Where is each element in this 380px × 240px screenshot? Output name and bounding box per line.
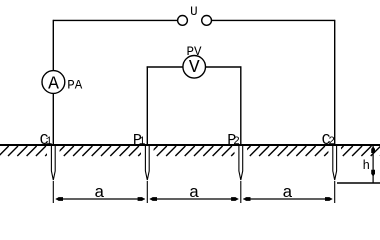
electrode P1 — [145, 146, 149, 180]
label a (span 2) — [189, 184, 199, 203]
label P2 — [227, 132, 240, 149]
svg-text:U: U — [190, 5, 198, 19]
label C2 — [322, 132, 335, 149]
wire top-right segment from source U to C2 — [212, 19, 335, 21]
wire left vertical upper (top wire to ammeter) — [52, 20, 54, 71]
svg-text:a: a — [189, 184, 199, 203]
wire left vertical lower (ammeter to electrode C1) — [52, 93, 54, 145]
label C1 — [40, 132, 53, 149]
electrode C1 — [51, 146, 55, 180]
wire voltmeter horizontal left — [147, 66, 183, 68]
svg-text:a: a — [94, 184, 104, 203]
label h — [363, 159, 371, 173]
svg-text:1: 1 — [46, 136, 53, 148]
wire P2 vertical (voltmeter line to electrode P2) — [240, 66, 242, 145]
ammeter U2 circle — [42, 71, 65, 95]
svg-text:h: h — [363, 159, 371, 173]
dimension h arrow — [371, 146, 375, 183]
electrode C2 — [333, 146, 337, 180]
svg-text:A: A — [48, 74, 59, 94]
dimension line a (P2-C2) — [243, 197, 332, 201]
svg-text:V: V — [189, 58, 200, 78]
source U terminal left — [178, 16, 188, 26]
svg-text:a: a — [282, 184, 292, 203]
extension line below P2 — [240, 181, 242, 203]
label PV — [186, 45, 202, 59]
earth hatching — [0, 145, 380, 157]
electrode P2 — [239, 146, 243, 180]
extension line below P1 — [146, 181, 148, 203]
svg-text:PA: PA — [67, 78, 83, 92]
extension line below C2 — [334, 181, 336, 203]
svg-text:2: 2 — [328, 136, 335, 148]
label PA — [67, 78, 83, 92]
extension line below C1 — [52, 181, 54, 203]
svg-text:2: 2 — [233, 136, 240, 148]
dimension line a (P1-P2) — [150, 197, 239, 201]
svg-text:PV: PV — [186, 45, 202, 59]
svg-text:1: 1 — [139, 136, 146, 148]
depth reference line — [337, 182, 380, 184]
label a (span 3) — [282, 184, 292, 203]
ground surface line — [0, 144, 380, 146]
wire top-left segment from C1 to source U — [53, 19, 178, 21]
wire P1 vertical (electrode P1 to voltmeter line) — [146, 66, 148, 145]
source U terminal right — [202, 16, 212, 26]
label P1 — [133, 132, 146, 149]
wire right vertical (top wire to electrode C2) — [334, 20, 336, 145]
wire voltmeter horizontal right — [205, 66, 241, 68]
voltmeter U1 circle — [183, 56, 206, 79]
label U — [190, 5, 198, 19]
dimension line a (C1-P1) — [56, 197, 145, 201]
label a (span 1) — [94, 184, 104, 203]
